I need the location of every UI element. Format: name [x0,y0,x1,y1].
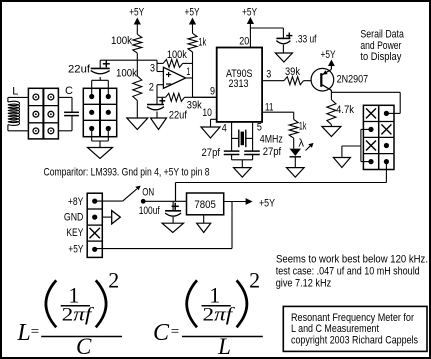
svg-text:4.7k: 4.7k [336,104,354,116]
svg-text:100uf: 100uf [139,205,161,217]
svg-text:1k: 1k [198,36,206,48]
svg-text:100k: 100k [116,68,137,80]
svg-text:GND: GND [64,211,84,223]
svg-text:4MHz: 4MHz [260,133,283,145]
svg-text:L and C Measurement: L and C Measurement [291,323,379,335]
svg-text:Serail Data: Serail Data [360,29,404,41]
svg-text:give 7.12 kHz: give 7.12 kHz [276,277,332,289]
svg-text:KEY: KEY [66,227,84,239]
svg-text:+5Y: +5Y [68,243,83,255]
svg-text:2: 2 [108,267,119,292]
svg-text:Resonant Frequency Meter for: Resonant Frequency Meter for [291,312,414,324]
svg-text:1: 1 [186,66,190,78]
svg-text:L: L [16,320,30,346]
svg-text:=: = [171,324,179,340]
svg-text:C: C [153,320,170,346]
svg-text:2πf: 2πf [203,304,236,325]
svg-text:22uf: 22uf [68,63,91,75]
svg-text:and Power: and Power [360,40,401,52]
svg-text:2: 2 [149,82,154,94]
svg-text:5: 5 [257,122,262,134]
svg-text:2: 2 [249,267,260,292]
svg-text:L: L [217,334,231,359]
svg-text:2N2907: 2N2907 [337,74,369,86]
svg-text:C: C [76,334,92,359]
svg-text:39k: 39k [285,66,300,78]
svg-text:λ: λ [299,138,305,150]
svg-text:=: = [31,324,39,340]
svg-text:27pf: 27pf [263,146,282,158]
svg-text:2πf: 2πf [62,304,95,325]
svg-text:3: 3 [266,68,271,80]
svg-text:27pf: 27pf [202,147,221,159]
svg-text:to Display: to Display [360,51,401,63]
svg-text:+5Y: +5Y [129,7,144,19]
svg-text:.33 uf: .33 uf [296,34,318,46]
svg-text:10: 10 [202,107,212,119]
svg-text:C: C [65,85,73,97]
svg-text:L: L [12,86,18,98]
svg-text:ON: ON [142,186,154,198]
svg-text:+8Y: +8Y [68,196,84,208]
svg-text:+5Y: +5Y [259,198,276,210]
svg-text:7805: 7805 [194,199,216,211]
svg-text:+5Y: +5Y [242,6,257,18]
svg-text:100k: 100k [111,35,132,47]
svg-text:20: 20 [239,36,249,48]
svg-text:3: 3 [150,63,155,75]
svg-text:Seems to work best below 120 k: Seems to work best below 120 kHz. [276,253,428,265]
svg-text:9: 9 [210,85,215,97]
svg-text:2313: 2313 [229,78,249,90]
svg-text:test case: .047 uf and 10 mH s: test case: .047 uf and 10 mH should [276,265,420,277]
svg-text:copyright 2003 Richard Cappels: copyright 2003 Richard Cappels [291,334,418,346]
svg-text:4: 4 [222,123,227,135]
svg-text:39k: 39k [187,99,202,111]
svg-text:+5Y: +5Y [185,7,200,19]
svg-text:1k: 1k [299,121,307,133]
svg-text:+5Y: +5Y [321,49,336,61]
svg-text:22uf: 22uf [169,109,188,121]
svg-text:Comparitor: LM393. Gnd pin 4,: Comparitor: LM393. Gnd pin 4, +5Y to pin… [44,167,210,179]
